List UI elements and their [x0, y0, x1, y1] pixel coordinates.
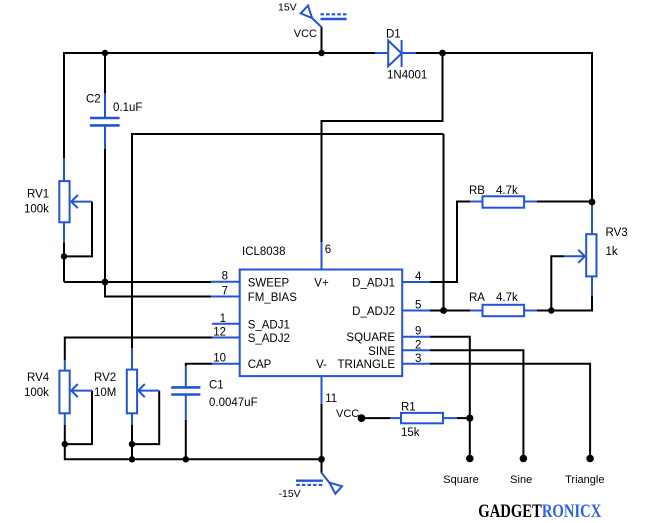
svg-text:VCC: VCC: [336, 408, 359, 420]
svg-text:C1: C1: [209, 380, 224, 392]
svg-text:D_ADJ1: D_ADJ1: [352, 277, 395, 289]
svg-text:15k: 15k: [401, 427, 420, 439]
svg-text:5: 5: [415, 300, 421, 312]
svg-text:Triangle: Triangle: [565, 474, 604, 486]
svg-text:TRIANGLE: TRIANGLE: [337, 359, 395, 371]
svg-text:SQUARE: SQUARE: [346, 332, 395, 344]
svg-text:GADGETRONICX: GADGETRONICX: [478, 502, 602, 522]
svg-text:15V: 15V: [278, 2, 297, 14]
svg-text:10M: 10M: [94, 387, 116, 399]
svg-text:RA: RA: [469, 292, 485, 304]
svg-text:1: 1: [220, 313, 226, 325]
svg-text:10: 10: [213, 353, 226, 365]
svg-text:CAP: CAP: [248, 359, 272, 371]
svg-text:4: 4: [415, 271, 422, 283]
svg-text:4.7k: 4.7k: [496, 185, 518, 197]
svg-text:1k: 1k: [606, 246, 618, 258]
svg-text:11: 11: [325, 393, 337, 405]
svg-text:D_ADJ2: D_ADJ2: [352, 306, 395, 318]
svg-text:FM_BIAS: FM_BIAS: [248, 292, 298, 304]
svg-text:R1: R1: [401, 402, 416, 414]
svg-text:RB: RB: [469, 185, 485, 197]
svg-text:6: 6: [325, 244, 331, 256]
svg-text:S_ADJ1: S_ADJ1: [248, 319, 290, 331]
svg-text:8: 8: [222, 271, 228, 283]
svg-text:100k: 100k: [24, 387, 49, 399]
svg-text:V+: V+: [314, 277, 329, 289]
svg-text:1N4001: 1N4001: [387, 70, 427, 82]
svg-text:-15V: -15V: [279, 488, 301, 500]
svg-text:Sine: Sine: [510, 474, 532, 486]
svg-text:7: 7: [222, 286, 228, 298]
svg-text:0.1uF: 0.1uF: [113, 102, 142, 114]
svg-text:4.7k: 4.7k: [496, 292, 518, 304]
svg-text:RV1: RV1: [27, 189, 49, 201]
svg-text:SINE: SINE: [368, 346, 395, 358]
svg-text:D1: D1: [386, 29, 401, 41]
svg-text:C2: C2: [86, 94, 101, 106]
svg-text:SWEEP: SWEEP: [248, 277, 290, 289]
svg-text:9: 9: [415, 326, 421, 338]
svg-text:Square: Square: [443, 474, 478, 486]
svg-text:0.0047uF: 0.0047uF: [209, 397, 258, 409]
svg-text:S_ADJ2: S_ADJ2: [248, 333, 290, 345]
svg-text:RV2: RV2: [94, 372, 116, 384]
svg-text:ICL8038: ICL8038: [242, 246, 285, 258]
svg-text:VCC: VCC: [294, 28, 317, 40]
svg-text:100k: 100k: [24, 204, 49, 216]
svg-text:RV4: RV4: [27, 372, 50, 384]
svg-text:2: 2: [415, 339, 421, 351]
svg-text:RV3: RV3: [606, 227, 628, 239]
svg-text:12: 12: [213, 327, 226, 339]
svg-text:3: 3: [415, 353, 421, 365]
svg-text:V-: V-: [316, 359, 327, 371]
